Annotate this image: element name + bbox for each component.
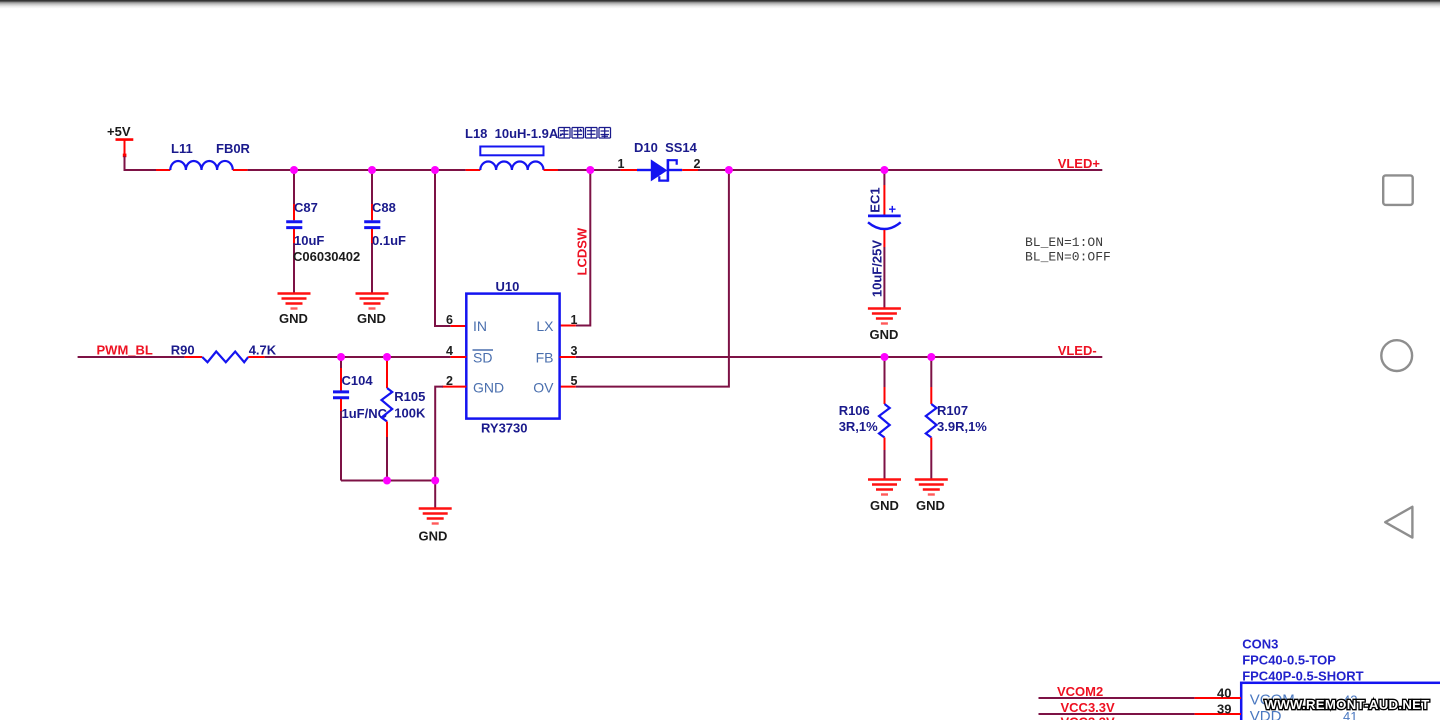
wire drop to OV — [576, 170, 729, 387]
svg-text:EC1: EC1 — [868, 187, 883, 212]
svg-text:GND: GND — [916, 498, 945, 513]
svg-text:6: 6 — [446, 313, 453, 327]
inductor L11 — [156, 141, 251, 170]
junction LCDSW — [586, 166, 594, 174]
resistor R107 — [926, 357, 988, 480]
svg-text:R107: R107 — [937, 403, 968, 418]
IC U10 — [446, 279, 577, 436]
svg-text:3R,1%: 3R,1% — [839, 419, 878, 434]
svg-text:40: 40 — [1217, 686, 1231, 701]
svg-text:VLED-: VLED- — [1058, 343, 1097, 358]
svg-text:VCOM2: VCOM2 — [1057, 684, 1103, 699]
svg-text:GND: GND — [357, 311, 386, 326]
svg-text:39: 39 — [1217, 702, 1231, 717]
pin stub FB — [560, 356, 576, 358]
pin stub IN — [451, 325, 467, 327]
svg-text:WWW.REMONT-AUD.NET: WWW.REMONT-AUD.NET — [1265, 697, 1430, 712]
svg-text:+: + — [889, 202, 897, 217]
svg-text:1uF/NC: 1uF/NC — [342, 406, 388, 421]
junction C104 — [337, 353, 345, 361]
svg-text:R90: R90 — [171, 343, 195, 358]
inductor L18 — [465, 126, 559, 170]
svg-text:CON3: CON3 — [1242, 637, 1278, 652]
ground C87 — [278, 294, 311, 327]
capacitor C88 — [364, 170, 406, 294]
diode D10 — [618, 140, 701, 182]
pin stub LX — [560, 325, 576, 327]
wire drop to U10 IN — [435, 170, 451, 326]
ground R107 — [915, 480, 948, 514]
junction rail GND — [431, 477, 439, 485]
nav button back — [1385, 507, 1412, 538]
svg-text:4: 4 — [446, 344, 453, 358]
svg-text:GND: GND — [870, 327, 899, 342]
svg-text:GND: GND — [473, 380, 504, 396]
status bar shadow — [0, 0, 1440, 11]
svg-text:PWM_BL: PWM_BL — [97, 343, 153, 358]
nav button home — [1381, 340, 1412, 371]
svg-text:10uF/25V: 10uF/25V — [870, 240, 885, 297]
svg-text:VCC3.3V: VCC3.3V — [1061, 715, 1116, 720]
svg-text:GND: GND — [279, 311, 308, 326]
svg-text:SD: SD — [473, 350, 492, 366]
wire L11 to L18 — [248, 169, 466, 171]
svg-text:D10 SS14: D10 SS14 — [634, 140, 698, 155]
pin stub 39 — [1195, 713, 1241, 715]
wire R90 to SD — [265, 356, 451, 358]
svg-text:5: 5 — [571, 374, 578, 388]
svg-text:LX: LX — [536, 318, 554, 334]
junction rail R105 — [383, 477, 391, 485]
junction OV drop — [725, 166, 733, 174]
svg-text:FPC40P-0.5-SHORT: FPC40P-0.5-SHORT — [1242, 669, 1363, 684]
wire +5V to L11 — [125, 156, 157, 170]
ground C88 — [356, 294, 389, 327]
capacitor EC1 — [868, 170, 901, 309]
ground rail symbol — [419, 509, 452, 544]
pin stub 40 — [1195, 697, 1241, 699]
wire PWM_BL to R90 — [78, 356, 185, 358]
junction EC1 — [880, 166, 888, 174]
capacitor C87 — [286, 170, 360, 294]
svg-text:R106: R106 — [839, 403, 870, 418]
svg-text:FB0R: FB0R — [216, 141, 251, 156]
wire VCOM2 — [1039, 697, 1195, 699]
connector CON3 box — [1241, 683, 1440, 720]
svg-text:100K: 100K — [394, 406, 426, 421]
wire LCDSW to LX — [576, 170, 591, 326]
svg-text:3.9R,1%: 3.9R,1% — [937, 419, 987, 434]
junction R107 — [927, 353, 935, 361]
svg-text:C87: C87 — [294, 200, 318, 215]
junction C87 — [290, 166, 298, 174]
svg-text:2: 2 — [694, 157, 701, 171]
junction R106 — [881, 353, 889, 361]
ground R106 — [868, 480, 901, 514]
resistor R106 — [839, 357, 890, 480]
L18 CJK value glyphs — [559, 128, 611, 139]
svg-text:BL_EN=1:ON: BL_EN=1:ON — [1025, 235, 1103, 250]
wire ground rail — [341, 480, 435, 482]
svg-text:GND: GND — [419, 529, 448, 544]
svg-text:OV: OV — [533, 380, 554, 396]
junction IN drop — [431, 166, 439, 174]
wire U10 GND pin — [442, 386, 466, 388]
svg-text:FPC40-0.5-TOP: FPC40-0.5-TOP — [1242, 653, 1336, 668]
ground EC1 — [868, 309, 901, 343]
svg-text:4.7K: 4.7K — [249, 343, 277, 358]
svg-text:RY3730: RY3730 — [481, 421, 528, 436]
wire VCC3.3V — [1039, 713, 1195, 715]
wire FB to VLED- — [576, 356, 1103, 358]
wire rail to ground — [434, 481, 436, 509]
svg-text:L18 10uH-1.9A: L18 10uH-1.9A — [465, 126, 559, 141]
wire D10 to VLED+ — [698, 169, 1102, 171]
svg-text:LCDSW: LCDSW — [575, 227, 590, 275]
svg-text:+5V: +5V — [107, 124, 131, 139]
svg-text:VCC3.3V: VCC3.3V — [1061, 700, 1116, 715]
pin stub OV — [560, 386, 576, 388]
svg-text:GND: GND — [870, 498, 899, 513]
svg-text:R105: R105 — [394, 389, 425, 404]
power symbol +5V — [107, 124, 133, 157]
svg-text:3: 3 — [571, 344, 578, 358]
svg-text:1: 1 — [571, 313, 578, 327]
resistor R90 — [171, 343, 277, 363]
svg-text:10uF: 10uF — [294, 233, 324, 248]
nav button recents — [1383, 175, 1413, 205]
svg-text:IN: IN — [473, 318, 487, 334]
svg-text:VLED+: VLED+ — [1058, 156, 1101, 171]
wire L18 to D10 — [558, 169, 621, 171]
junction R105 — [383, 353, 391, 361]
resistor R105 — [382, 357, 426, 481]
capacitor C104 — [333, 357, 388, 481]
svg-text:C104: C104 — [342, 373, 374, 388]
junction C88 — [368, 166, 376, 174]
svg-text:FB: FB — [536, 350, 554, 366]
pin stub SD — [451, 356, 467, 358]
svg-text:L11: L11 — [171, 141, 193, 156]
svg-text:U10: U10 — [496, 279, 520, 294]
svg-text:BL_EN=0:OFF: BL_EN=0:OFF — [1025, 250, 1111, 265]
svg-text:1: 1 — [618, 157, 625, 171]
svg-text:0.1uF: 0.1uF — [372, 233, 406, 248]
svg-text:C06030402: C06030402 — [293, 249, 360, 264]
svg-text:C88: C88 — [372, 200, 396, 215]
